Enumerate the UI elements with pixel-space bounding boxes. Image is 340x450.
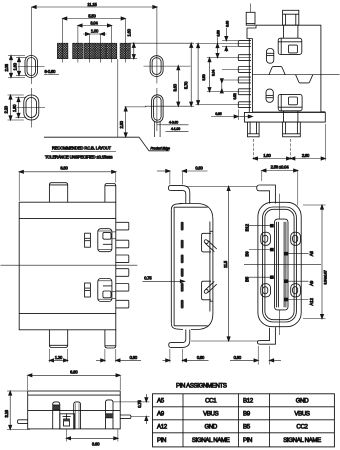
top tab solder T2 <box>283 10 299 25</box>
svg-text:0.80: 0.80 <box>130 355 138 360</box>
dimension 3.04 pins <box>207 58 238 92</box>
top view body outline <box>244 25 325 122</box>
bottom tab T3 <box>248 122 260 137</box>
slot upper-right <box>144 7 191 84</box>
table row 1 <box>157 398 309 405</box>
table row 3 <box>157 424 309 431</box>
svg-text:0.80: 0.80 <box>234 355 242 360</box>
slot lower-right half <box>145 88 194 137</box>
svg-text:2.80: 2.80 <box>302 153 310 158</box>
svg-text:VBUS: VBUS <box>294 411 309 418</box>
stud bottom <box>266 89 273 102</box>
pin label B5 <box>244 275 273 282</box>
dimension 3.04 <box>78 20 112 39</box>
svg-text:VBUS: VBUS <box>203 411 218 418</box>
svg-text:B5: B5 <box>243 424 251 431</box>
svg-text:1.60: 1.60 <box>127 28 132 36</box>
dimension 8.34 <box>303 205 327 319</box>
svg-text:1.60: 1.60 <box>12 62 17 70</box>
dimension 2.56 <box>262 165 298 206</box>
contact window lower <box>85 283 91 297</box>
dimension 11.15 <box>32 2 157 49</box>
svg-text:3.60: 3.60 <box>92 441 100 446</box>
dimension 0.80 tab <box>96 349 141 362</box>
dimension 2.20 <box>4 95 24 120</box>
dimension 3.60 elevation <box>66 430 118 447</box>
centerline horizontal front <box>244 263 321 265</box>
pin label A9 <box>284 279 314 286</box>
pad P2 <box>73 39 84 63</box>
table title <box>176 382 227 389</box>
svg-text:5.70: 5.70 <box>184 81 189 89</box>
latch window W1 <box>261 232 271 245</box>
pad P3 <box>84 39 95 63</box>
svg-text:A12: A12 <box>309 298 314 306</box>
svg-text:B9: B9 <box>243 411 251 418</box>
dimension 3.60 slots <box>173 66 180 107</box>
svg-text:1.60: 1.60 <box>263 153 271 158</box>
dimension 11.5 <box>223 186 230 341</box>
svg-text:Product Edge: Product Edge <box>151 146 171 150</box>
dimension 0.85 <box>211 110 252 121</box>
svg-text:GND: GND <box>204 424 217 431</box>
pins bottom view <box>116 222 129 308</box>
svg-text:6.80: 6.80 <box>60 166 68 171</box>
svg-text:4-1.00: 4-1.00 <box>171 127 180 131</box>
pad P5 <box>106 39 116 63</box>
contact window upper <box>85 233 91 247</box>
dimension 0.75 elevation <box>114 394 150 424</box>
tongue <box>275 219 289 310</box>
dimension 0.60 pin <box>222 21 238 52</box>
svg-text:3.04: 3.04 <box>90 20 98 25</box>
dimension 2.80 to edge <box>119 107 146 137</box>
svg-text:GND: GND <box>296 398 309 405</box>
svg-text:0.52: 0.52 <box>233 93 237 99</box>
product edge line <box>44 137 170 151</box>
svg-text:TOLERANCE UNSPECIFIED ±0.15mm: TOLERANCE UNSPECIFIED ±0.15mm <box>45 155 113 160</box>
dimension 5.70 <box>130 43 194 106</box>
latch contact upper <box>98 229 116 252</box>
svg-text:4-0.60: 4-0.60 <box>169 121 178 125</box>
projection line top <box>185 185 257 187</box>
svg-text:6.80: 6.80 <box>70 369 78 374</box>
svg-text:A9: A9 <box>309 280 314 286</box>
latch window W4 <box>291 284 301 297</box>
svg-text:0.75: 0.75 <box>137 400 142 408</box>
dimension 0.80 side foot <box>163 349 209 363</box>
tab TB <box>105 184 116 203</box>
dimension 0.52 <box>220 79 237 100</box>
elevation left pin <box>18 420 28 424</box>
svg-text:2.20: 2.20 <box>4 105 9 113</box>
elevation body <box>28 391 121 429</box>
latch window W3 <box>261 284 271 297</box>
dimension 6.80 top <box>19 166 116 202</box>
svg-text:RECOMMENDED P.C.B. LAYOUT: RECOMMENDED P.C.B. LAYOUT <box>52 146 112 151</box>
svg-text:B5: B5 <box>244 276 249 282</box>
svg-text:SIGNAL NAME: SIGNAL NAME <box>192 437 230 444</box>
svg-text:0.75: 0.75 <box>144 276 152 281</box>
table row 2 <box>157 411 310 418</box>
svg-text:3.04: 3.04 <box>212 70 216 76</box>
note recommended pcb layout <box>51 146 116 152</box>
svg-text:11.5: 11.5 <box>223 260 228 268</box>
centerline vertical front <box>278 194 280 335</box>
slot upper-left <box>18 49 45 84</box>
svg-text:1.20: 1.20 <box>55 355 63 360</box>
dimple trapezoid upper <box>269 67 286 75</box>
elevation post P1 <box>53 402 60 429</box>
svg-text:5.50: 5.50 <box>202 74 206 80</box>
pin row top view <box>238 41 251 108</box>
dimension 0.80 top foot <box>157 166 208 185</box>
pin label A12 <box>284 298 314 306</box>
dimension 1.80 <box>12 98 26 118</box>
tab TA <box>49 183 67 203</box>
leader 0.75 pins <box>143 276 185 283</box>
bottom view body <box>19 202 116 330</box>
svg-text:2.56 ±0.04: 2.56 ±0.04 <box>271 165 290 170</box>
pin label B9 <box>244 248 273 257</box>
svg-text:B12: B12 <box>244 223 249 231</box>
svg-text:2.80: 2.80 <box>119 120 124 128</box>
projection line bottom <box>191 340 258 342</box>
tab TC <box>49 330 67 348</box>
svg-text:B12: B12 <box>243 398 254 405</box>
svg-text:1.00: 1.00 <box>91 29 99 34</box>
bottom tab T4 <box>283 122 301 137</box>
pad P1 <box>57 39 68 63</box>
dimension 6.80 elevation <box>28 369 121 390</box>
svg-text:3.60: 3.60 <box>173 83 178 91</box>
pad gap line <box>117 59 119 137</box>
centerline view3 <box>1 264 138 266</box>
dimple trapezoid lower <box>296 75 313 83</box>
elevation post P2 <box>74 402 81 429</box>
svg-text:B9: B9 <box>244 251 249 257</box>
side latch lower <box>202 281 217 300</box>
side view shell <box>168 186 213 348</box>
pin label B12 <box>244 223 273 231</box>
svg-text:A9: A9 <box>157 411 165 418</box>
svg-text:0.80: 0.80 <box>195 166 203 171</box>
tab TD <box>105 330 116 348</box>
latch window W2 <box>291 232 301 245</box>
front shell outer <box>258 202 301 326</box>
latch contact lower <box>98 279 116 302</box>
svg-text:0.56: 0.56 <box>216 30 220 36</box>
mid projection line <box>252 74 339 76</box>
svg-text:PIN: PIN <box>243 437 252 444</box>
svg-text:11.15: 11.15 <box>87 2 97 7</box>
note tolerance <box>45 155 113 160</box>
svg-text:CC2: CC2 <box>296 424 308 431</box>
dimension 5.50 <box>63 13 126 39</box>
table row 4 <box>157 437 321 444</box>
svg-text:2.06: 2.06 <box>4 63 9 71</box>
side latch upper <box>202 233 217 252</box>
svg-text:CC1: CC1 <box>205 398 217 405</box>
stud top <box>267 49 274 64</box>
pad P4 <box>95 39 106 63</box>
elevation post P3 <box>106 400 114 429</box>
svg-text:SIGNAL NAME: SIGNAL NAME <box>283 437 321 444</box>
front foot top <box>257 185 276 204</box>
top tab small T1 <box>246 4 255 26</box>
pad P6 <box>120 39 130 63</box>
svg-text:0.80: 0.80 <box>197 355 205 360</box>
svg-text:A5: A5 <box>309 251 314 257</box>
side slots <box>181 222 184 309</box>
slot lower-left <box>17 88 45 128</box>
svg-text:0.60: 0.60 <box>225 21 229 27</box>
dimension 3.60 2.80 tabs <box>253 124 325 161</box>
dimension 1.60 pad height <box>127 28 138 58</box>
svg-text:6-0.80: 6-0.80 <box>45 69 57 74</box>
svg-text:3.16: 3.16 <box>4 409 9 417</box>
dimension 0.80 front foot <box>230 346 281 365</box>
svg-text:PIN ASSIGNMENTS: PIN ASSIGNMENTS <box>176 382 227 389</box>
front foot bottom <box>257 327 275 344</box>
latch detail top <box>278 25 302 54</box>
label 4-1.00 <box>166 127 189 131</box>
dimension 5.50 pins <box>196 44 239 105</box>
svg-text:5.50: 5.50 <box>88 13 96 18</box>
svg-text:A12: A12 <box>157 424 168 431</box>
svg-text:8.34±0.07: 8.34±0.07 <box>323 270 327 284</box>
label 6-0.80 <box>44 69 59 75</box>
svg-text:1.80: 1.80 <box>12 104 17 112</box>
elevation right pin <box>120 415 131 419</box>
dimension 1.00 <box>83 29 107 39</box>
table grid <box>153 394 335 447</box>
label 4-0.60 <box>157 121 189 125</box>
latch detail bottom <box>278 94 302 122</box>
pin label A5 <box>284 251 314 257</box>
dimension 1.20 <box>49 349 67 362</box>
svg-text:0.85: 0.85 <box>215 112 221 116</box>
svg-text:A5: A5 <box>157 398 165 405</box>
svg-text:PIN: PIN <box>157 437 166 444</box>
dimension 0.56 <box>216 30 220 58</box>
dimension 2.06 <box>4 56 25 78</box>
elevation center block <box>60 414 75 429</box>
dimension 1.60 slot <box>12 58 27 76</box>
dimension 3.16 <box>4 391 30 430</box>
